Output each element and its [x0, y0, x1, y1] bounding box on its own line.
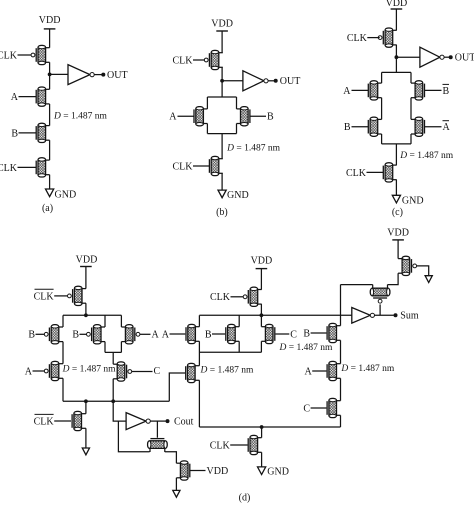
svg-text:CLK: CLK — [173, 55, 194, 66]
wire Q5 gate lead — [193, 59, 205, 61]
svg-text:A: A — [343, 86, 351, 97]
wire Q1 drain to node OUTa — [49, 62, 51, 89]
svg-text:B: B — [443, 86, 450, 97]
circuit (a) VDD power symbol — [44, 28, 56, 30]
svg-text:CLK: CLK — [0, 50, 18, 61]
wire left branch Q20 to Q23 — [198, 341, 200, 365]
wire Q14 gate lead — [80, 333, 87, 335]
svg-text:D = 1.487 nm: D = 1.487 nm — [226, 144, 280, 154]
transistor Q20 (A, circuit d mid) — [195, 326, 199, 328]
wire Q1 gate lead — [18, 54, 32, 56]
wire U4 output to Cout — [150, 420, 165, 422]
transistor QA (pass A, circuit c) — [378, 82, 382, 84]
wire pair left join (d left) — [104, 342, 106, 353]
svg-text:OUT: OUT — [280, 76, 301, 87]
transistor Q17 (CLK-bar NMOS, circuit d) — [82, 413, 86, 415]
wire pair right join (d left) — [120, 342, 122, 353]
wire Q17 gate lead — [54, 420, 71, 422]
svg-text:D = 1.487 nm: D = 1.487 nm — [62, 365, 116, 375]
svg-text:B: B — [303, 328, 310, 339]
svg-text:B: B — [72, 330, 79, 341]
svg-text:GND: GND — [402, 196, 424, 207]
node top (d left) — [84, 313, 88, 317]
svg-text:Cout: Cout — [174, 417, 194, 428]
ground (c) — [392, 195, 400, 203]
circuit (c) VDD power symbol — [391, 8, 403, 10]
svg-text:VDD: VDD — [211, 19, 233, 30]
node OUT terminal (b) — [274, 79, 278, 83]
wire node to inverter U4 input — [113, 401, 126, 421]
wire Q17 source down — [85, 428, 87, 448]
svg-text:CLK: CLK — [346, 168, 367, 179]
transistor Q8 (CLK NMOS, circuit b) — [219, 158, 223, 160]
transistor Q12 (B upper-left, circuit d) — [59, 326, 63, 328]
wire bottom rail to Q17 drain — [85, 401, 87, 413]
node bottom junction (inverter tap) — [111, 399, 115, 403]
wire pair stem to Q16 — [112, 352, 114, 364]
ground arrow for Q25 gate — [425, 276, 432, 283]
transistor Q16 (C, circuit d) — [113, 363, 117, 365]
transistor Q3 (input B, circuit a) — [46, 125, 50, 127]
svg-text:(b): (b) — [216, 207, 228, 218]
node OUTa junction — [48, 73, 52, 77]
wire left branch drop (d mid) — [198, 315, 200, 326]
wire bridge stem to Q10 (c) — [395, 144, 397, 165]
circuit (d) VDD power symbol (middle) — [256, 268, 268, 270]
wire pair bottom rail to left branch (d mid) — [199, 351, 261, 353]
wire bridge top rail (b) — [207, 96, 236, 98]
wire bridge right drop (b) — [236, 97, 238, 109]
svg-text:D = 1.487 nm: D = 1.487 nm — [200, 366, 254, 376]
wire Q18 source down — [175, 478, 177, 491]
wire bridge right join (b) — [236, 124, 238, 134]
transistor Q21 (B, circuit d mid) — [235, 326, 239, 328]
svg-text:VDD: VDD — [39, 15, 61, 26]
ground (a) — [46, 189, 54, 197]
wire Q28 source to bottom rail — [340, 415, 342, 427]
wire Q16 gate lead — [132, 371, 153, 373]
wire bridge left mid (c) — [381, 98, 383, 120]
transistor Q30 (Sum pass, horizontal, circuit d) — [372, 285, 374, 289]
wire Q27 to Q28 — [340, 378, 342, 400]
wire Q30 right tap to Q25 — [388, 273, 399, 284]
wire Q16 source to bottom rail — [112, 379, 114, 402]
wire Q10 gate lead — [367, 171, 384, 173]
transistor QAb (pass A-bar, circuit c) — [411, 118, 415, 120]
svg-text:CLK: CLK — [34, 416, 55, 427]
svg-text:C: C — [154, 366, 161, 377]
wire Q4 source to ground — [49, 175, 51, 189]
node Sum terminal — [394, 313, 398, 317]
wire bottom rail (d left) — [63, 400, 169, 402]
wire QB gate lead — [352, 126, 369, 128]
transistor Q24 (CLK NMOS, circuit d mid) — [258, 437, 262, 439]
transistor Q19 (CLK PMOS, circuit d mid) — [258, 289, 262, 291]
svg-text:D = 1.487 nm: D = 1.487 nm — [340, 364, 394, 374]
svg-text:GND: GND — [267, 466, 289, 477]
transistor Q6 (pass A, circuit b) — [203, 108, 207, 110]
svg-text:B: B — [344, 122, 351, 133]
ground (d mid) — [258, 467, 266, 475]
svg-text:D = 1.487 nm: D = 1.487 nm — [279, 343, 333, 353]
wire VDD to Q5 drain — [221, 31, 223, 53]
transistor Q26 (B sum chain, circuit d) — [337, 325, 341, 327]
svg-text:CLK: CLK — [0, 163, 18, 174]
wire Q19 gate lead — [231, 296, 244, 298]
circuit (d) VDD power symbol (left) — [80, 266, 92, 268]
svg-text:B: B — [11, 128, 18, 139]
svg-text:A: A — [443, 122, 451, 133]
circuit (d) VDD power symbol (right) — [392, 239, 404, 241]
svg-text:A: A — [304, 366, 312, 377]
svg-text:(c): (c) — [392, 207, 403, 218]
transistor Q22 (C, circuit d mid) — [261, 326, 265, 328]
wire bridge top rail (c) — [382, 71, 411, 73]
transistor Q5 (CLK PMOS, circuit b) — [219, 52, 223, 54]
wire pair right drop (d left) — [120, 315, 122, 327]
ground arrow below Q18 — [173, 490, 180, 497]
wire bottom rail (d mid) — [199, 426, 340, 428]
wire Q30 left tap to sum chain — [341, 284, 373, 286]
node OUTc junction — [395, 55, 399, 59]
wire Q27 gate lead — [312, 370, 326, 372]
wire top rail (d left) — [63, 314, 121, 316]
svg-text:A: A — [169, 112, 177, 123]
node bottom (d mid) — [260, 425, 264, 429]
wire Q10 source to ground — [395, 180, 397, 196]
transistor Q4 (CLK NMOS, circuit a) — [46, 159, 50, 161]
wire VDD to Q25 drain — [397, 240, 399, 259]
transistor Q28 (C sum chain, circuit d) — [337, 400, 341, 402]
wire U3 output — [444, 56, 451, 58]
op-amp U5 (Sum inverter, circuit d) — [352, 308, 371, 324]
wire Cout-bar feed down — [118, 421, 149, 452]
wire bridge left drop (b) — [206, 97, 208, 109]
transistor Q1 (CLK PMOS, circuit a) — [46, 47, 50, 49]
svg-text:VDD: VDD — [251, 255, 273, 266]
wire Q2 source to Q3 drain — [49, 104, 51, 126]
ground (b) — [218, 190, 226, 198]
transistor Q10 (CLK NMOS, circuit c) — [393, 164, 397, 166]
wire Q5 drain to node (b) — [221, 67, 223, 97]
transistor Q7 (pass B, circuit b) — [237, 108, 241, 110]
svg-text:VDD: VDD — [207, 466, 229, 477]
wire Q21 gate lead — [212, 333, 225, 335]
node OUTb junction — [220, 79, 224, 83]
transistor Q27 (A sum chain, circuit d) — [337, 363, 341, 365]
svg-text:CLK: CLK — [347, 33, 368, 44]
svg-text:D = 1.487 nm: D = 1.487 nm — [399, 151, 453, 161]
transistor Q11 (CLK-bar PMOS, circuit d) — [82, 288, 86, 290]
svg-text:GND: GND — [227, 190, 249, 201]
svg-text:B: B — [267, 112, 274, 123]
wire bridge left join (c) — [381, 134, 383, 144]
transistor Q2 (input A, circuit a) — [46, 88, 50, 90]
svg-text:(a): (a) — [42, 203, 53, 214]
svg-text:VDD: VDD — [387, 228, 409, 239]
wire QA gate lead — [352, 89, 369, 91]
svg-text:A: A — [152, 330, 160, 341]
svg-text:VDD: VDD — [76, 254, 98, 265]
transistor QBb (pass B-bar, circuit c) — [411, 82, 415, 84]
wire node to inverter U2 — [222, 80, 243, 82]
wire Q2 gate lead — [19, 96, 37, 98]
svg-text:A: A — [162, 329, 170, 340]
wire Q28 gate lead — [311, 407, 327, 409]
ground arrow below Q17 — [82, 448, 89, 455]
wire Q12 gate lead — [36, 333, 45, 335]
node Cout terminal — [166, 419, 170, 423]
node top (d mid) — [260, 313, 264, 317]
op-amp U2 (output inverter, circuit b) — [243, 71, 264, 91]
svg-text:D = 1.487 nm: D = 1.487 nm — [53, 111, 107, 121]
wire Q24 gate lead — [230, 444, 247, 446]
wire Q11 gate lead — [54, 295, 67, 297]
transistor Q18 (VDD-gated, circuit d) — [176, 462, 180, 464]
wire bridge right drop (c) — [410, 72, 412, 83]
wire Q7 gate lead — [250, 115, 266, 117]
transistor Q13 (A lower-left, circuit d) — [59, 363, 63, 365]
svg-text:OUT: OUT — [107, 70, 128, 81]
wire node to inverter U3 — [396, 56, 420, 58]
wire Q29 right tap to Q18 — [165, 452, 177, 464]
wire pair bottom rail (d left) — [105, 351, 121, 353]
wire Q4 gate lead — [18, 166, 37, 168]
wire Q30 gate from Sum wire — [379, 304, 381, 315]
wire Q18 gate lead — [190, 470, 206, 472]
wire bridge left join (b) — [206, 124, 208, 134]
wire VDD to Q19 drain — [260, 269, 262, 290]
svg-text:C: C — [303, 403, 310, 414]
transistor Q23 (Cout-bar gated, circuit d mid) — [195, 365, 199, 367]
op-amp U3 (output inverter, circuit c) — [420, 47, 440, 67]
wire Q8 gate lead — [193, 165, 209, 167]
wire Q3 source to Q4 drain — [49, 140, 51, 160]
wire U2 output — [268, 80, 276, 82]
svg-text:B: B — [205, 329, 212, 340]
wire Q26 to Q27 — [340, 340, 342, 363]
transistor Q25 (VDD precharge, circuit d) — [398, 258, 402, 260]
svg-text:Sum: Sum — [400, 311, 419, 322]
wire pair left join (d mid) — [238, 341, 240, 352]
wire bottom rail to Q24 drain — [261, 427, 263, 438]
svg-text:A: A — [25, 366, 33, 377]
transistor Q29 (Cout pass, horizontal, circuit d) — [149, 448, 151, 452]
wire bridge bottom rail (b) — [207, 133, 236, 135]
wire Q29 gate from Cout — [156, 421, 158, 438]
wire QAb gate lead — [425, 126, 442, 128]
svg-text:VDD: VDD — [386, 0, 408, 9]
node OUT terminal (c) — [449, 55, 453, 59]
wire Q23 source to bottom rail (d mid) — [198, 380, 200, 427]
wire node to inverter U1 — [50, 73, 68, 75]
svg-text:B: B — [28, 330, 35, 341]
wire Q13 source to bottom rail — [62, 378, 64, 401]
wire Q22 gate lead — [276, 333, 290, 335]
wire Q13 gate lead — [33, 370, 45, 372]
svg-text:(d): (d) — [239, 493, 251, 504]
wire VDD to Q1 drain — [49, 29, 51, 48]
transistor Q15 (A middle pair, circuit d) — [121, 326, 125, 328]
wire bridge stem to Q8 (b) — [221, 134, 223, 159]
wire U5 output to Sum — [375, 314, 394, 316]
wire Q24 source to ground — [261, 452, 263, 467]
wire pair top right drop (d mid) — [260, 315, 262, 326]
transistor Q14 (B middle pair, circuit d) — [101, 326, 105, 328]
wire pair left drop (d left) — [104, 315, 106, 327]
wire Q8 source to ground — [221, 173, 223, 190]
wire top rail (d mid) to U5 — [199, 314, 351, 316]
wire U1 output — [94, 74, 103, 76]
wire Q20 gate lead — [170, 333, 186, 335]
svg-text:GND: GND — [55, 189, 77, 200]
wire Q26 gate lead — [311, 332, 327, 334]
wire pair right join (d mid) — [260, 341, 262, 352]
svg-text:CLK: CLK — [34, 291, 55, 302]
node OUT terminal (a) — [101, 73, 105, 77]
wire VDD to Q9 drain — [395, 9, 397, 30]
wire Q6 gate lead — [178, 115, 195, 117]
wire Q12 to Q13 (d left) — [62, 342, 64, 364]
wire Q19 drain to top node (d mid) — [260, 304, 262, 315]
wire left branch drop (d left) — [62, 315, 64, 327]
wire Q15 gate lead — [140, 333, 151, 335]
svg-text:CLK: CLK — [210, 440, 231, 451]
wire Q23 gate from Cout-bar node — [169, 373, 185, 401]
circuit (b) VDD power symbol — [216, 30, 228, 32]
svg-text:CLK: CLK — [173, 161, 194, 172]
wire pair left drop (d mid) — [238, 315, 240, 326]
wire bridge left drop (c) — [381, 72, 383, 83]
wire bridge right mid (c) — [410, 98, 412, 120]
wire Q3 gate lead — [19, 132, 37, 134]
svg-text:OUT: OUT — [455, 53, 474, 64]
wire bridge bottom rail (c) — [382, 143, 411, 145]
transistor Q9 (CLK PMOS, circuit c) — [393, 29, 397, 31]
op-amp U4 (Cout inverter, circuit d) — [126, 413, 146, 430]
svg-text:C: C — [290, 329, 297, 340]
wire bridge right join (c) — [410, 134, 412, 144]
wire Q9 gate lead — [367, 37, 379, 39]
wire Q9 drain to node (c) — [395, 45, 397, 73]
wire VDD to Q11 drain — [85, 267, 87, 289]
transistor QB (pass B, circuit c) — [378, 118, 382, 120]
wire Q25 gate lead to arrow — [417, 266, 429, 276]
wire Q11 drain to top node (d left) — [85, 303, 87, 315]
svg-text:CLK: CLK — [210, 292, 231, 303]
op-amp U1 (output inverter, circuit a) — [68, 65, 90, 85]
svg-text:A: A — [11, 92, 19, 103]
wire sum chain top drop (crosses rail) — [340, 285, 342, 326]
node bottom left junction (CLK-bar) — [84, 399, 88, 403]
wire QBb gate lead — [425, 89, 442, 91]
